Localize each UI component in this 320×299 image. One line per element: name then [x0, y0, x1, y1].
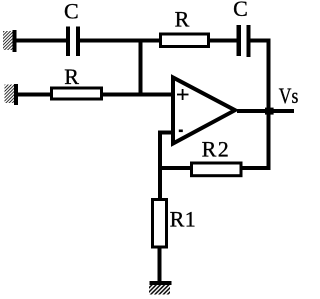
svg-text:R: R — [64, 64, 79, 89]
svg-text:C: C — [233, 0, 248, 21]
svg-text:Vs: Vs — [279, 83, 299, 108]
svg-text:R: R — [175, 7, 190, 32]
svg-text:R2: R2 — [202, 136, 231, 161]
svg-text:R1: R1 — [170, 206, 197, 231]
svg-text:C: C — [64, 0, 79, 24]
